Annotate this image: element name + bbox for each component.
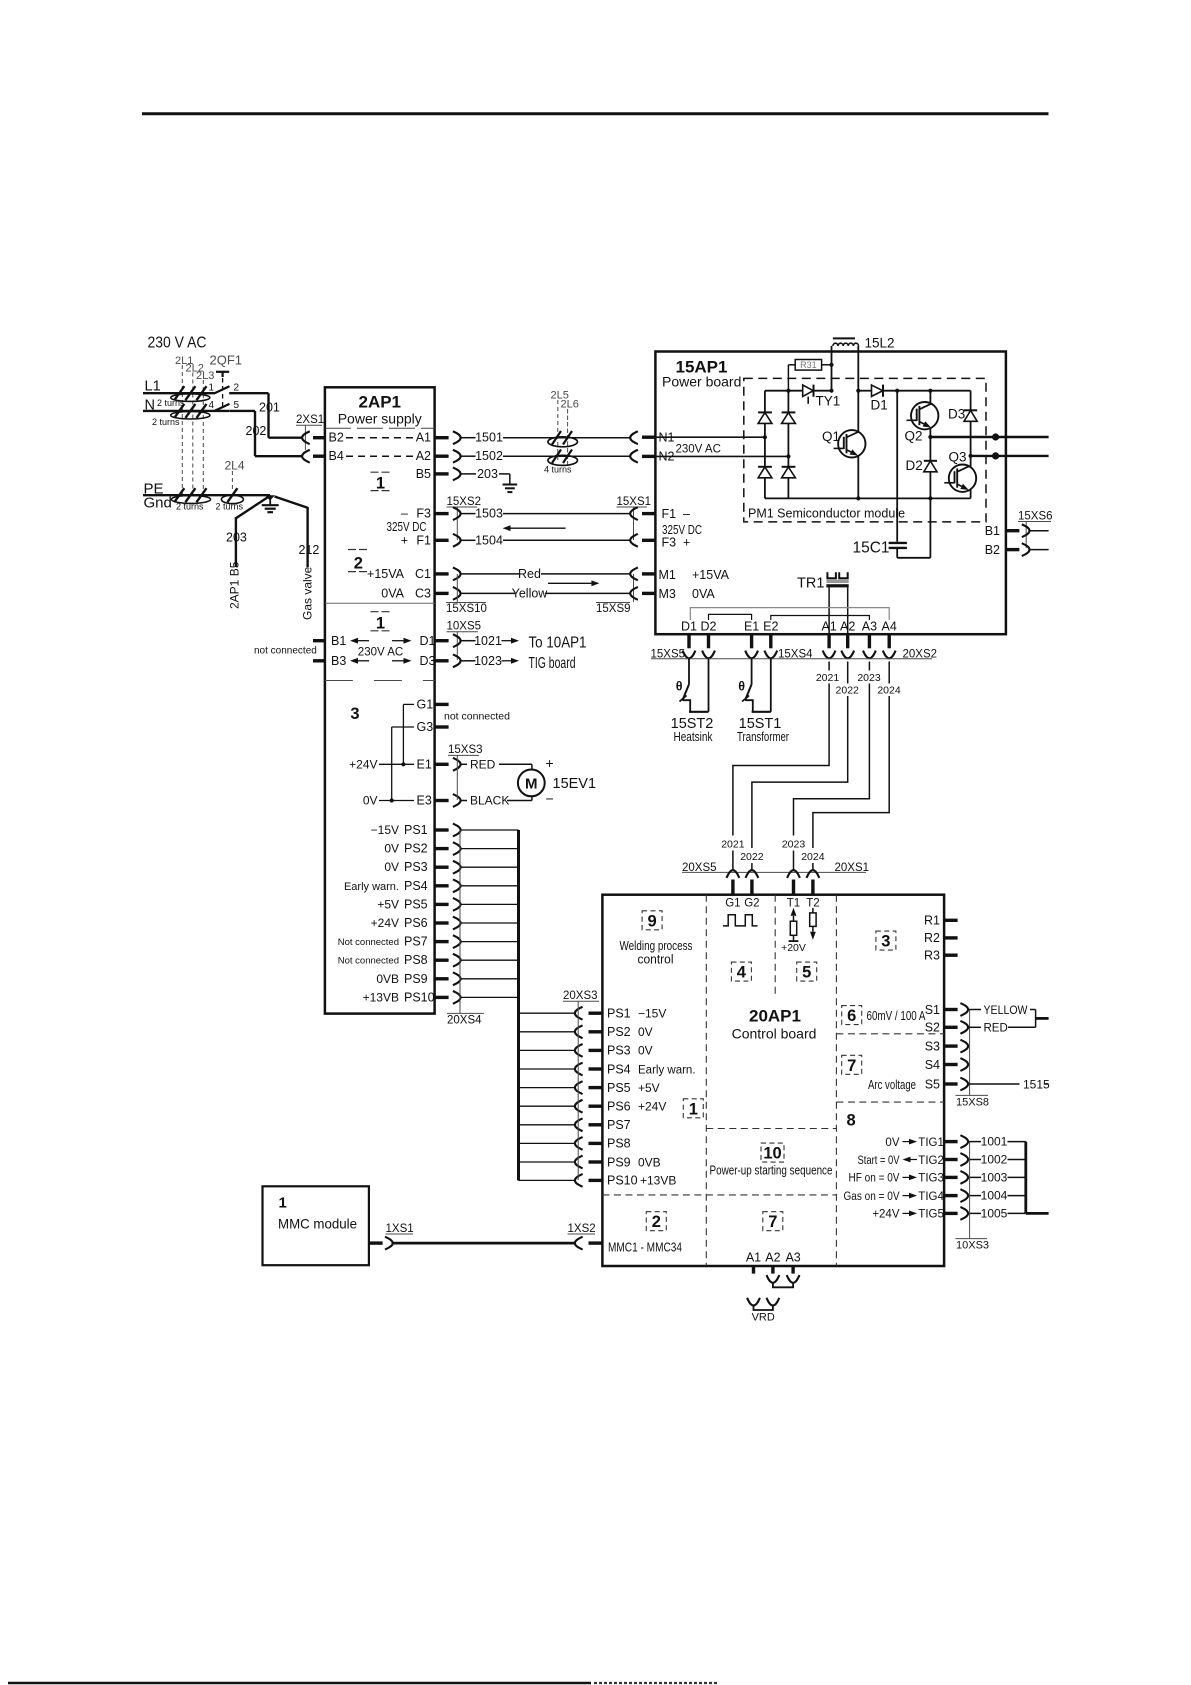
svg-text:2024: 2024 bbox=[877, 685, 901, 697]
ground (B5 203) bbox=[509, 474, 511, 485]
svg-text:Arc voltage: Arc voltage bbox=[868, 1078, 916, 1092]
inductor core 2L1-2L3 on L1 (2 turns) bbox=[171, 394, 210, 402]
board 20AP1 outline bbox=[602, 895, 944, 1266]
svg-text:B2: B2 bbox=[329, 431, 344, 445]
wire 202 bbox=[229, 410, 255, 412]
group line D1-A4 (gray) bbox=[690, 608, 889, 620]
svg-text:2: 2 bbox=[652, 1213, 661, 1231]
connector 10XS3 pin TIG3 bbox=[960, 1171, 968, 1184]
wire RED (to fan motor) bbox=[461, 763, 467, 765]
transistor Q3 (IGBT) bbox=[970, 456, 972, 467]
wire L1 bbox=[143, 392, 215, 394]
svg-text:10XS3: 10XS3 bbox=[956, 1239, 989, 1251]
section 3 marker bbox=[876, 931, 896, 950]
connector 15XS8 pin S2 bbox=[960, 1021, 968, 1034]
svg-text:M1: M1 bbox=[659, 568, 676, 582]
inductor core 2L4 on PE (2 turns) bbox=[221, 495, 243, 503]
svg-text:0VA: 0VA bbox=[692, 587, 715, 601]
junction Q1 emitter (bottom rail) bbox=[856, 496, 860, 500]
connector 10XS3 pin TIG2 bbox=[960, 1153, 968, 1166]
pin B3 stub (not connected) bbox=[313, 659, 325, 662]
connector pin D2 (bottom) bbox=[702, 651, 715, 659]
connector 20XS3 pin PS9 bbox=[575, 1156, 583, 1169]
connector VRD pin 2 bbox=[767, 1298, 780, 1306]
wire 1005 bbox=[968, 1212, 981, 1214]
wire 2024 bbox=[888, 662, 890, 684]
junction TY1 cathode / 15L2 bbox=[829, 389, 833, 393]
svg-text:PS4: PS4 bbox=[404, 879, 428, 893]
bus TIG wires bbox=[1024, 1142, 1027, 1214]
svg-text:230V AC: 230V AC bbox=[676, 443, 721, 455]
partition dashed vertical mid bbox=[774, 895, 776, 995]
wire G3 to E3 bbox=[391, 727, 393, 801]
wire bus to PS6 20AP1 bbox=[519, 1105, 576, 1107]
svg-text:MMC module: MMC module bbox=[278, 1216, 357, 1232]
connector 15XS6 pin B1 bbox=[1022, 524, 1030, 537]
junction Q3 collector / output 2 bbox=[969, 454, 973, 458]
svg-text:1: 1 bbox=[279, 1195, 287, 1212]
svg-text:0VB: 0VB bbox=[638, 1155, 661, 1169]
connector pin F3 (right) bbox=[435, 512, 449, 515]
wire current sensor output bbox=[1036, 1017, 1049, 1020]
svg-text:A4: A4 bbox=[882, 620, 897, 634]
connector pin G1 (top) bbox=[727, 870, 740, 878]
svg-text:201: 201 bbox=[259, 401, 280, 415]
svg-text:F1: F1 bbox=[662, 507, 677, 521]
separator under title bbox=[325, 427, 435, 429]
svg-text:PS4: PS4 bbox=[607, 1062, 631, 1076]
wire bus to PS1 20AP1 bbox=[519, 1012, 576, 1014]
cable MMC1-MMC34 bbox=[393, 1242, 575, 1245]
svg-text:203: 203 bbox=[226, 531, 247, 545]
wire 203 (B5 to ground) bbox=[461, 473, 476, 475]
wire PS10 to bus bbox=[461, 996, 519, 998]
wire 1001 bbox=[968, 1141, 981, 1143]
svg-text:1: 1 bbox=[376, 615, 385, 633]
capacitor 15C1 bbox=[896, 391, 898, 542]
svg-text:Power board: Power board bbox=[662, 374, 741, 390]
svg-text:20XS4: 20XS4 bbox=[447, 1014, 482, 1026]
svg-text:1001: 1001 bbox=[981, 1135, 1008, 1149]
svg-text:R1: R1 bbox=[924, 913, 940, 927]
ground (mains earth) bbox=[269, 495, 271, 505]
connector pin D1 (bottom) bbox=[683, 651, 696, 659]
svg-text:E1: E1 bbox=[744, 620, 759, 634]
thermal switch 15ST2 bbox=[688, 658, 690, 684]
breaker 2QF1 bbox=[216, 371, 229, 373]
svg-text:203: 203 bbox=[477, 467, 498, 481]
svg-text:PS1: PS1 bbox=[404, 823, 428, 837]
connector 20XS4 pin PS8 bbox=[435, 959, 449, 962]
svg-text:5: 5 bbox=[802, 964, 811, 982]
svg-text:1: 1 bbox=[689, 1100, 698, 1118]
svg-text:Transformer: Transformer bbox=[737, 730, 789, 744]
svg-text:15XS9: 15XS9 bbox=[596, 603, 631, 615]
arrow (power flow right) bbox=[548, 582, 591, 584]
svg-text:TIG4: TIG4 bbox=[918, 1191, 944, 1203]
wire TR1 to A1 bbox=[828, 587, 830, 633]
svg-text:Gas valve: Gas valve bbox=[301, 566, 315, 620]
svg-text:1003: 1003 bbox=[981, 1170, 1008, 1184]
svg-text:7: 7 bbox=[847, 1057, 856, 1075]
svg-text:TIG3: TIG3 bbox=[918, 1173, 944, 1185]
svg-text:2L4: 2L4 bbox=[225, 459, 245, 473]
wire TR1 to A2 bbox=[847, 587, 849, 633]
svg-text:TIG2: TIG2 bbox=[918, 1155, 944, 1167]
svg-text:1005: 1005 bbox=[981, 1206, 1008, 1220]
svg-text:+24V: +24V bbox=[872, 1209, 900, 1221]
svg-text:1502: 1502 bbox=[475, 449, 503, 463]
junction N2 bbox=[786, 454, 790, 458]
svg-text:D3: D3 bbox=[948, 407, 965, 422]
svg-text:BLACK: BLACK bbox=[470, 794, 509, 808]
svg-text:PS2: PS2 bbox=[607, 1025, 631, 1039]
svg-text:TIG board: TIG board bbox=[529, 655, 576, 672]
partition dashed horizontal (sect 10) bbox=[706, 1128, 836, 1130]
connector pin A3 (bottom) bbox=[863, 651, 876, 659]
connector pin A2 (right) bbox=[435, 455, 449, 458]
wire 1501 bbox=[461, 437, 476, 439]
svg-text:2023: 2023 bbox=[857, 672, 881, 684]
svg-text:15C1: 15C1 bbox=[853, 540, 890, 557]
svg-text:2 turns: 2 turns bbox=[216, 502, 244, 512]
svg-text:Gas on = 0V: Gas on = 0V bbox=[844, 1191, 900, 1203]
connector 20XS3 pin PS10 bbox=[575, 1174, 583, 1187]
svg-text:15XS10: 15XS10 bbox=[446, 603, 487, 615]
svg-text:2L6: 2L6 bbox=[561, 399, 579, 411]
wire PM1 bottom rail bbox=[765, 497, 971, 499]
module MMC (1) bbox=[263, 1186, 369, 1265]
page bottom rule bbox=[8, 1682, 591, 1684]
wire 212 bbox=[275, 497, 308, 508]
svg-text:E1: E1 bbox=[417, 757, 432, 771]
board 2AP1 outline bbox=[325, 387, 435, 1013]
svg-text:20XS1: 20XS1 bbox=[835, 862, 870, 874]
svg-text:PS10: PS10 bbox=[404, 990, 435, 1004]
svg-text:–: – bbox=[683, 507, 690, 521]
connector VRD pin 1 bbox=[747, 1298, 760, 1306]
wire bus to PS2 20AP1 bbox=[519, 1031, 576, 1033]
svg-text:S5: S5 bbox=[925, 1077, 940, 1091]
section 1 marker (2AP1 top) bbox=[371, 471, 391, 473]
svg-text:T2: T2 bbox=[806, 898, 819, 910]
junction output 2 terminal bbox=[992, 452, 999, 459]
svg-text:7: 7 bbox=[768, 1213, 777, 1231]
svg-text:0VA: 0VA bbox=[381, 586, 404, 600]
wire N bbox=[143, 410, 229, 412]
svg-text:PS6: PS6 bbox=[607, 1100, 631, 1114]
svg-text:PS6: PS6 bbox=[404, 916, 428, 930]
wire TIG bundle out bbox=[1026, 1212, 1049, 1215]
wire bus to PS8 20AP1 bbox=[519, 1142, 576, 1144]
junction PE bbox=[265, 495, 275, 500]
wire 1504 bbox=[461, 539, 476, 541]
svg-text:D1: D1 bbox=[681, 620, 697, 634]
svg-text:2 turns: 2 turns bbox=[176, 502, 204, 512]
junction output 1 terminal bbox=[992, 433, 999, 440]
svg-text:A1: A1 bbox=[416, 431, 431, 445]
svg-text:1501: 1501 bbox=[475, 431, 503, 445]
wire Yellow (C3 to M3) bbox=[461, 592, 515, 594]
svg-text:R31: R31 bbox=[800, 360, 817, 370]
svg-text:2AP1: 2AP1 bbox=[358, 393, 401, 412]
wire PS2 to bus bbox=[461, 848, 519, 850]
svg-text:D1: D1 bbox=[871, 398, 888, 413]
svg-text:2024: 2024 bbox=[801, 851, 825, 863]
connector 20XS3 pin PS1 bbox=[575, 1007, 583, 1020]
connector 20XS3 pin PS7 bbox=[575, 1118, 583, 1131]
wire 201 bbox=[229, 392, 268, 394]
svg-text:R2: R2 bbox=[924, 931, 940, 945]
svg-text:3: 3 bbox=[350, 705, 359, 723]
svg-text:+: + bbox=[401, 533, 408, 547]
svg-text:3: 3 bbox=[881, 933, 890, 951]
connector 15XS8 pin S5 bbox=[960, 1078, 968, 1091]
separator 2AP1 mid bbox=[325, 602, 435, 604]
svg-text:+: + bbox=[546, 755, 554, 771]
svg-text:+13VB: +13VB bbox=[640, 1174, 676, 1188]
connector 20XS4 pin PS9 bbox=[435, 977, 449, 980]
svg-text:Control board: Control board bbox=[732, 1026, 817, 1042]
svg-text:15XS6: 15XS6 bbox=[1018, 510, 1053, 522]
svg-text:F1: F1 bbox=[416, 533, 431, 547]
svg-text:8: 8 bbox=[847, 1112, 856, 1130]
rectifier bridge leg 2 (lower diode) bbox=[787, 456, 789, 466]
svg-text:PS10: PS10 bbox=[607, 1174, 638, 1188]
svg-text:1XS2: 1XS2 bbox=[568, 1223, 596, 1235]
svg-text:N2: N2 bbox=[659, 450, 675, 464]
wire PS7 to bus bbox=[461, 941, 519, 943]
svg-text:PS3: PS3 bbox=[404, 860, 428, 874]
connector 20XS3 pin PS8 bbox=[575, 1137, 583, 1150]
connector 1XS2 pin bbox=[575, 1237, 583, 1250]
svg-text:Q3: Q3 bbox=[949, 450, 967, 465]
junction R31/15L2 bbox=[829, 363, 833, 367]
svg-text:212: 212 bbox=[299, 543, 320, 557]
connector 10XS3 pin TIG1 bbox=[960, 1135, 968, 1148]
section 5 marker bbox=[797, 962, 817, 981]
svg-text:B2: B2 bbox=[985, 543, 1000, 557]
label Gas valve (destination) bbox=[301, 566, 315, 620]
svg-text:TIG1: TIG1 bbox=[918, 1137, 944, 1149]
svg-text:PS2: PS2 bbox=[404, 842, 428, 856]
junction N1 bbox=[763, 435, 767, 439]
svg-text:TIG5: TIG5 bbox=[918, 1209, 944, 1221]
svg-text:C1: C1 bbox=[415, 567, 431, 581]
wire 2021 bbox=[828, 662, 830, 671]
partition dashed horizontal (sect 6/7) bbox=[836, 1033, 944, 1035]
inductor core 2L1-2L3 on N (2 turns) bbox=[171, 411, 210, 419]
svg-text:1: 1 bbox=[209, 383, 215, 394]
svg-text:PS8: PS8 bbox=[607, 1137, 631, 1151]
svg-text:2L3: 2L3 bbox=[196, 370, 214, 382]
svg-text:1023: 1023 bbox=[474, 654, 502, 668]
svg-text:1002: 1002 bbox=[981, 1153, 1008, 1167]
svg-text:6: 6 bbox=[847, 1007, 856, 1025]
svg-text:4: 4 bbox=[737, 964, 747, 982]
svg-text:+24V: +24V bbox=[349, 757, 377, 771]
wire 2023 bbox=[868, 662, 870, 671]
svg-text:M3: M3 bbox=[659, 587, 676, 601]
svg-text:2 turns: 2 turns bbox=[157, 398, 185, 408]
svg-text:PS8: PS8 bbox=[404, 953, 428, 967]
connector 15XS8 pin S1 bbox=[960, 1003, 968, 1016]
wire 1004 bbox=[968, 1195, 981, 1197]
svg-text:B5: B5 bbox=[416, 467, 431, 481]
svg-text:+20V: +20V bbox=[781, 942, 806, 954]
svg-text:PS9: PS9 bbox=[607, 1155, 631, 1169]
svg-text:S3: S3 bbox=[925, 1039, 940, 1053]
wire bus to PS3 20AP1 bbox=[519, 1049, 576, 1051]
connector 2XS1 pin B4 bbox=[313, 455, 325, 458]
svg-text:0VB: 0VB bbox=[376, 972, 399, 986]
motor 15EV1 (fan) bbox=[518, 770, 545, 797]
connector 20XS4 pin PS5 bbox=[435, 903, 449, 906]
svg-text:B4: B4 bbox=[329, 449, 344, 463]
group line D2-E1 bbox=[709, 614, 752, 620]
svg-text:F3: F3 bbox=[662, 535, 677, 549]
svg-text:TY1: TY1 bbox=[816, 394, 841, 409]
svg-text:PS1: PS1 bbox=[607, 1007, 631, 1021]
wire bus to PS4 20AP1 bbox=[519, 1068, 576, 1070]
svg-text:15XS4: 15XS4 bbox=[778, 648, 813, 660]
svg-text:2XS1: 2XS1 bbox=[296, 414, 324, 426]
svg-text:PS5: PS5 bbox=[404, 897, 428, 911]
wire BLACK (from fan motor) bbox=[461, 800, 467, 802]
arrow (power flow left) bbox=[511, 527, 566, 529]
svg-text:0V: 0V bbox=[885, 1137, 899, 1149]
connector pin A2 (bottom) bbox=[841, 651, 854, 659]
partition dashed vertical right bbox=[835, 895, 837, 1266]
cable bus 2AP1 to 20AP1 bbox=[517, 830, 520, 1180]
svg-text:15EV1: 15EV1 bbox=[553, 776, 597, 792]
junction D2 leg (bottom rail) bbox=[928, 496, 932, 500]
connector pin A3 (bottom) bbox=[787, 1275, 800, 1283]
section 1 marker (2AP1 mid) bbox=[371, 611, 391, 613]
rectifier bridge leg 1 (upper diode) bbox=[764, 391, 766, 413]
wire PS3 to bus bbox=[461, 866, 519, 868]
svg-text:θ: θ bbox=[676, 680, 683, 694]
svg-text:+13VB: +13VB bbox=[363, 990, 399, 1004]
svg-text:10XS5: 10XS5 bbox=[447, 621, 482, 633]
connector 10XS3 pin TIG5 bbox=[960, 1207, 968, 1220]
connector 10XS3 pin TIG4 bbox=[960, 1189, 968, 1202]
wire arc voltage 1515 (S5) bbox=[968, 1083, 1019, 1085]
connector pin E1 (bottom) bbox=[745, 651, 758, 659]
resistor R31 bbox=[795, 360, 821, 371]
ferrite core on 1502 (4 turns) bbox=[548, 455, 578, 465]
svg-text:9: 9 bbox=[648, 912, 657, 930]
svg-text:T1: T1 bbox=[787, 898, 800, 910]
wire 203 bbox=[236, 496, 270, 518]
svg-text:G1: G1 bbox=[417, 698, 434, 712]
svg-text:−15V: −15V bbox=[638, 1007, 666, 1021]
connector 1XS1 pin bbox=[369, 1241, 383, 1244]
wire RED (S2) bbox=[968, 1026, 981, 1028]
wire 2022 bbox=[847, 662, 849, 684]
junction TY1 anode bbox=[786, 389, 790, 393]
connector pin D1 (right) bbox=[435, 639, 449, 642]
svg-text:A2: A2 bbox=[416, 449, 431, 463]
svg-text:Early warn.: Early warn. bbox=[638, 1064, 696, 1076]
section 2 marker (20AP1) bbox=[646, 1212, 666, 1231]
section 1 marker (20AP1) bbox=[683, 1099, 703, 1118]
svg-text:2: 2 bbox=[234, 383, 240, 394]
svg-text:2QF1: 2QF1 bbox=[210, 353, 243, 368]
junction 15L2 right / D1 anode bbox=[856, 389, 860, 393]
connector pin A2 (bottom) bbox=[767, 1275, 780, 1283]
svg-text:15L2: 15L2 bbox=[865, 336, 895, 351]
section 7 marker (right) bbox=[842, 1055, 862, 1074]
svg-text:2021: 2021 bbox=[816, 672, 840, 684]
connector pin B5 (right) bbox=[435, 472, 449, 475]
connector 20XS4 pin PS10 bbox=[435, 996, 449, 999]
connector 10XS3 label bbox=[969, 1142, 971, 1239]
connector pin F1 (right) bbox=[435, 539, 449, 542]
diode D1 bbox=[858, 390, 871, 392]
connector 20XS4 label bbox=[459, 830, 461, 1013]
svg-text:2AP1 B5: 2AP1 B5 bbox=[228, 561, 242, 609]
transformer TR1 bbox=[827, 572, 836, 578]
svg-text:−15V: −15V bbox=[371, 823, 399, 837]
svg-text:M: M bbox=[525, 775, 538, 792]
svg-text:Not connected: Not connected bbox=[338, 937, 399, 948]
rectifier bridge leg 2 (upper diode) bbox=[787, 391, 789, 412]
svg-text:4: 4 bbox=[209, 400, 215, 411]
junction D1 cathode bbox=[895, 389, 899, 393]
connector pin A4 (bottom) bbox=[883, 651, 896, 659]
svg-text:15XS1: 15XS1 bbox=[617, 496, 652, 508]
svg-text:G2: G2 bbox=[744, 898, 759, 910]
svg-text:0V: 0V bbox=[638, 1044, 653, 1058]
svg-text:15XS3: 15XS3 bbox=[448, 744, 483, 756]
svg-text:A3: A3 bbox=[862, 620, 877, 634]
svg-text:20XS5: 20XS5 bbox=[682, 862, 717, 874]
svg-text:+5V: +5V bbox=[638, 1081, 660, 1095]
svg-text:A2: A2 bbox=[840, 620, 855, 634]
connector 20XS4 pin PS3 bbox=[435, 866, 449, 869]
svg-text:D2: D2 bbox=[701, 620, 717, 634]
svg-text:S2: S2 bbox=[925, 1021, 940, 1035]
connector pin G2 (top) bbox=[746, 870, 759, 878]
svg-text:D3: D3 bbox=[420, 654, 436, 668]
svg-text:+15VA: +15VA bbox=[367, 567, 405, 581]
svg-text:15XS5: 15XS5 bbox=[651, 648, 686, 660]
connector 20XS4 pin PS7 bbox=[435, 940, 449, 943]
svg-text:C3: C3 bbox=[415, 586, 431, 600]
svg-text:Welding process: Welding process bbox=[620, 939, 693, 953]
connector 15XS8 label bbox=[969, 1010, 971, 1095]
svg-text:10: 10 bbox=[763, 1145, 781, 1163]
connector 20XS4 pin PS2 bbox=[435, 847, 449, 850]
svg-text:E2: E2 bbox=[763, 620, 778, 634]
svg-text:20XS3: 20XS3 bbox=[563, 990, 598, 1002]
wire 1503 bbox=[461, 513, 476, 515]
rectifier bridge leg 1 (lower diode) bbox=[764, 437, 766, 467]
svg-text:+5V: +5V bbox=[377, 897, 399, 911]
connector 20XS4 pin PS6 bbox=[435, 921, 449, 924]
wire 1023 bbox=[461, 660, 476, 662]
wire PS4 to bus bbox=[461, 885, 519, 887]
gate pulse waveform icon bbox=[723, 915, 758, 926]
svg-text:PS7: PS7 bbox=[404, 935, 428, 949]
svg-text:RED: RED bbox=[470, 758, 496, 772]
svg-text:PS5: PS5 bbox=[607, 1081, 631, 1095]
svg-text:+24V: +24V bbox=[638, 1100, 666, 1114]
wire N2 internal bbox=[655, 455, 788, 457]
svg-text:S1: S1 bbox=[925, 1003, 940, 1017]
partition dashed horizontal (sect 7/8) bbox=[836, 1101, 944, 1103]
